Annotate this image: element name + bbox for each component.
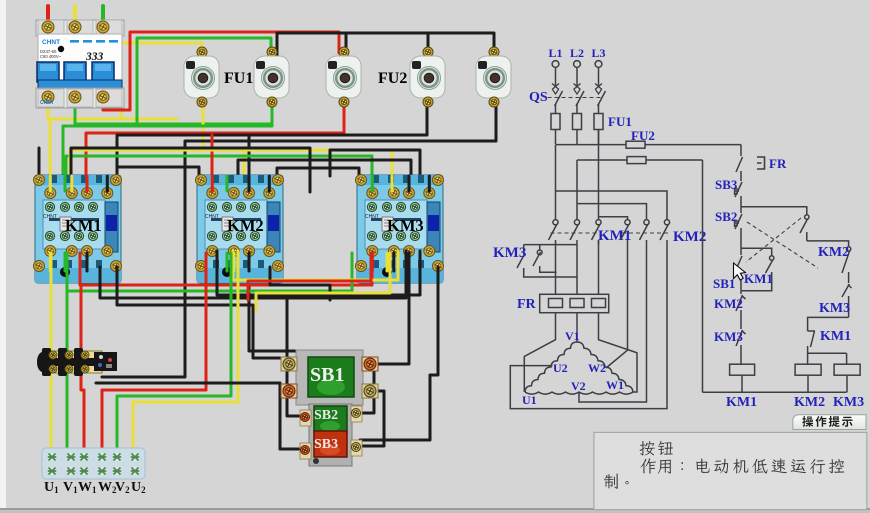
wire L3 green into breaker	[101, 6, 105, 28]
wire black fuse4-bottom bus	[117, 97, 427, 176]
svg-text:SB2: SB2	[715, 209, 737, 224]
contactor KM1 main contact pole1	[549, 220, 559, 245]
wire branch line3 to KM2 pole1	[599, 217, 628, 219]
motor winding U1-V1	[525, 342, 577, 392]
wire FU2 branch 2	[577, 159, 627, 161]
contact KM2 NC	[736, 291, 746, 327]
wire KM2 pole2 to V2 tap	[579, 245, 647, 402]
wire red KM1 to terminal W1	[81, 285, 84, 452]
svg-text:L1: L1	[548, 46, 562, 60]
fuse FU1 schematic	[551, 114, 603, 145]
label motor V2	[571, 379, 586, 393]
wire left control rail	[702, 160, 704, 392]
wire red bus below contactors	[80, 253, 372, 285]
wire green bus below contactors	[67, 253, 352, 291]
contactor KM1 main contact pole3	[592, 220, 602, 245]
svg-text:CHNT: CHNT	[42, 39, 60, 46]
contact KM3 NC	[736, 327, 746, 364]
wire black bus below contactors	[100, 251, 406, 298]
label KM1 right	[820, 329, 851, 344]
wire black top KM1	[71, 148, 310, 192]
wire branch line2 to KM2 pole2	[577, 204, 647, 219]
KM1 contacts linkage dashed	[551, 232, 601, 234]
wire yellow KM3 bottom to bus	[256, 253, 390, 310]
svg-text:SB1: SB1	[310, 364, 344, 386]
mouse cursor	[734, 263, 746, 280]
wire yellow drop KM1 col1	[49, 119, 52, 192]
label KM2 NC	[714, 296, 743, 311]
svg-text:FU1: FU1	[608, 114, 632, 129]
wire black KM1 outer stub up	[38, 148, 41, 176]
coil KM1	[730, 364, 755, 392]
wire coil feeds	[808, 353, 847, 364]
label coil KM2	[794, 395, 825, 410]
label KM1 main contacts	[598, 228, 631, 244]
svg-text:SB3: SB3	[715, 177, 738, 192]
wire black FR to SB lower left	[96, 383, 300, 449]
wire red KM3 bottom to bus	[248, 253, 371, 300]
label motor U2	[553, 361, 568, 375]
wire black fuse2-top to fuse4/fuse5 top	[277, 33, 494, 57]
svg-text:KM3: KM3	[833, 395, 864, 410]
svg-text:333: 333	[85, 51, 104, 63]
thermal relay FR heater schematic	[540, 294, 609, 312]
contact KM1 NO aux	[741, 255, 774, 291]
svg-text:C60 400V~: C60 400V~	[40, 54, 62, 59]
label QS	[529, 90, 548, 105]
svg-text:KM2: KM2	[794, 395, 825, 410]
svg-text:W2: W2	[588, 361, 606, 375]
coil KM3	[834, 364, 860, 392]
svg-text:FR: FR	[517, 297, 537, 312]
label coil KM1	[726, 395, 757, 410]
wire red fuse3-bottom to KM1	[86, 96, 344, 192]
svg-text:KM2: KM2	[673, 229, 706, 245]
wire yellow riser to FU1 fuse1	[121, 43, 202, 119]
KM2 contacts linkage dashed	[622, 232, 669, 234]
wire black SB left mid riser	[287, 298, 300, 416]
button SB2 NO contact	[800, 214, 809, 241]
node L2 terminal	[574, 61, 581, 68]
wire green breaker run	[75, 97, 270, 124]
wire stubs into contactor tops	[50, 176, 429, 191]
wire L1 drop	[555, 67, 557, 86]
label FU2 schematic	[631, 128, 655, 143]
wire KM2 pole3 to U2 tap	[510, 245, 667, 409]
wire black KM3 top drop	[330, 150, 420, 176]
wire black fuse4 drop to KM2	[248, 135, 251, 176]
fuse FU1-1	[184, 47, 219, 107]
wire FU2 branch 1	[556, 144, 627, 146]
wire yellow KM2 bus	[233, 251, 398, 280]
svg-text:KM2: KM2	[818, 245, 849, 260]
wire red drop KM2 col1	[211, 135, 214, 192]
label motor W1	[606, 378, 624, 392]
motor winding V1-W1	[577, 342, 633, 392]
label KM2 main contacts	[673, 229, 706, 245]
wire yellow breaker run	[48, 97, 177, 119]
wire FR to motor V1	[576, 313, 578, 342]
wire FR to motor U1	[524, 313, 555, 392]
svg-text:CHNT: CHNT	[40, 100, 54, 106]
thermal relay FR pictorial	[37, 348, 117, 376]
label coil KM3	[833, 395, 864, 410]
wire L3 drop	[598, 67, 600, 86]
svg-text:FU2: FU2	[378, 70, 407, 87]
svg-text:KM2: KM2	[714, 296, 743, 311]
svg-text:KM3: KM3	[819, 301, 850, 316]
wire stubs out of contactor bottoms	[50, 253, 409, 271]
label L2	[570, 46, 584, 60]
disconnect switch QS	[548, 84, 606, 114]
label SB1	[713, 276, 735, 291]
wire black KM2 bottom drop	[270, 267, 330, 300]
wire black KM2 to KM3 bus	[217, 251, 420, 295]
wire FR to motor W1	[599, 313, 638, 392]
wire yellow fuse1-bottom to KM2	[203, 97, 244, 192]
wire black SB orange screw stub	[280, 390, 287, 393]
contactor KM1	[34, 175, 122, 284]
button SB1 NO	[735, 248, 742, 291]
label KM3 contacts	[493, 245, 526, 261]
svg-text:W1: W1	[606, 378, 624, 392]
wire control feed corner	[740, 145, 742, 153]
node L3 terminal	[595, 61, 602, 68]
wire L2 yellow into breaker	[73, 6, 77, 28]
fuse FU2-a schematic	[626, 141, 645, 148]
contact KM3 NC right	[842, 284, 852, 317]
wire mains drop to KM1 contacts	[556, 130, 599, 220]
contactor KM2 main contact pole2	[640, 220, 650, 245]
svg-text:FU1: FU1	[224, 70, 253, 87]
text box operation hint	[594, 432, 867, 509]
contact KM1 NO right	[808, 325, 815, 353]
wire black SB right lower loop	[362, 391, 384, 446]
fuse FU1-2	[254, 47, 289, 107]
wire red KM2 to terminal W2	[102, 253, 206, 452]
label FU1 schematic	[608, 114, 632, 129]
coil KM2	[795, 364, 821, 392]
label motor V1	[565, 329, 580, 343]
labels U1 V1 W1 W2 V2 U2	[44, 480, 146, 495]
interlock dashed lines	[746, 218, 818, 268]
wire black branch fuse4 top	[427, 33, 430, 57]
wire black KM3 to SB top right	[372, 253, 409, 364]
label FR schematic	[517, 297, 537, 312]
wire green KM1 to terminal V1	[66, 253, 69, 452]
contactor KM2	[196, 175, 284, 284]
wire red breaker to FU2 fuse3	[103, 32, 339, 110]
fuse FU2-2	[410, 47, 445, 107]
push button station SB1 SB2 SB3	[281, 350, 378, 466]
wire branch SB2	[741, 207, 807, 214]
contactor KM2 main contact pole1	[621, 220, 631, 245]
wire yellow KM1 to terminal U1	[50, 253, 53, 452]
wire L2 drop	[576, 67, 578, 86]
wire yellow KM3 to terminal U2	[133, 251, 238, 452]
fuse FU2-b schematic	[627, 157, 646, 164]
wire merge junction	[808, 317, 849, 325]
label L3	[591, 46, 605, 60]
wire green long run to KM3	[66, 156, 372, 192]
label KM1 aux	[744, 271, 773, 286]
svg-text:KM1: KM1	[744, 271, 773, 286]
motor winding W1-U1	[525, 392, 633, 394]
label KM3 right	[819, 301, 850, 316]
wire black branch fuse3 top	[345, 33, 348, 53]
label FU2	[378, 70, 407, 87]
svg-text:SB3: SB3	[314, 437, 338, 452]
wire SB1 parallel branch	[741, 248, 772, 255]
terminal block XT	[42, 448, 145, 479]
wire yellow long run to KM3	[70, 150, 392, 192]
svg-text:U2: U2	[553, 361, 568, 375]
svg-text:KM1: KM1	[820, 329, 851, 344]
svg-text:FR: FR	[769, 156, 787, 171]
circuit breaker QF (CHNT MCB)	[36, 20, 124, 108]
svg-text:L2: L2	[570, 46, 584, 60]
wire pole lines to FR	[556, 240, 599, 294]
wire black jumper KM2-KM3 top	[277, 168, 359, 176]
contact KM2 NO aux	[842, 246, 851, 283]
wire black KM2 bottom to SB top-left	[249, 255, 296, 351]
label SB3	[715, 177, 738, 192]
label L1	[548, 46, 562, 60]
fuse FU2-3	[476, 47, 511, 107]
wire black KM1 mid drop	[117, 267, 374, 413]
wire black mid bus to KM3	[238, 160, 411, 176]
svg-text:U1: U1	[522, 393, 537, 407]
button SB3 NC	[735, 178, 743, 207]
wire FU2 branch 2 cont	[646, 159, 703, 161]
button SB2 NC	[735, 207, 743, 249]
wire green fuse2-bottom to KM1	[63, 96, 272, 192]
svg-text:FU2: FU2	[631, 128, 655, 143]
wire branch line1 to KM2 pole3	[556, 191, 668, 219]
wire SB2NO to KM2 branch	[807, 241, 849, 246]
label SB2	[715, 209, 737, 224]
wire black KM3 outer to SB right	[352, 267, 438, 452]
svg-text:V2: V2	[571, 379, 586, 393]
svg-text:V1: V1	[565, 329, 580, 343]
contact FR NC	[736, 153, 765, 178]
wire green KM2 to terminal V2	[117, 253, 231, 452]
fuse FU2-1	[326, 47, 361, 107]
wire green riser to FU1 fuse2	[137, 38, 271, 124]
label motor W2	[588, 361, 606, 375]
svg-text:SB2: SB2	[314, 408, 338, 423]
wire L1 red into breaker	[46, 6, 50, 28]
svg-text:SB1: SB1	[713, 276, 735, 291]
contactor KM1 main contact pole2	[570, 220, 580, 245]
label motor U1	[522, 393, 537, 407]
wire black jumper KM1-KM2 top	[117, 167, 199, 177]
contactor KM2 main contact pole3	[660, 220, 670, 245]
label KM3 NC	[714, 329, 743, 344]
svg-text:KM3: KM3	[493, 245, 526, 261]
label FU1	[224, 70, 253, 87]
tab 操作提示	[793, 415, 866, 430]
contactor KM3	[356, 175, 444, 284]
contactor KM3 shorting contacts	[517, 245, 577, 277]
svg-text:L3: L3	[591, 46, 605, 60]
label KM2 aux	[818, 245, 849, 260]
node L1 terminal	[552, 61, 559, 68]
svg-text:QS: QS	[529, 90, 548, 105]
wire bottom control rail	[703, 391, 847, 393]
svg-text:KM1: KM1	[726, 395, 757, 410]
wire FU2 branch 1 cont	[645, 144, 741, 146]
wire black fuse5-bottom long drop to FR	[102, 96, 496, 377]
label FR control	[769, 156, 787, 171]
wire KM2 pole1 to W2 tap	[606, 245, 628, 368]
svg-text:KM3: KM3	[714, 329, 743, 344]
